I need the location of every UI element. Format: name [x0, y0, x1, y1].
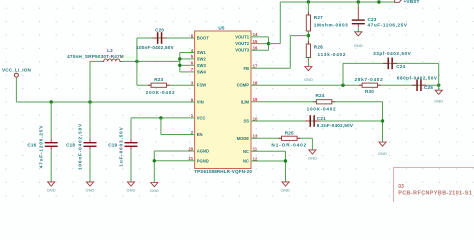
svg-text:100K-0402: 100K-0402 [307, 107, 337, 112]
svg-text:1uF-0603,50V: 1uF-0603,50V [119, 126, 124, 166]
svg-text:113k-0402: 113k-0402 [318, 52, 347, 57]
svg-text:+VBST: +VBST [404, 0, 420, 4]
svg-text:GND: GND [281, 188, 290, 193]
svg-text:COMP: COMP [237, 83, 250, 88]
svg-text:100nF-0402,50V: 100nF-0402,50V [136, 45, 174, 50]
svg-text:R25: R25 [285, 130, 294, 135]
svg-text:C19: C19 [108, 143, 117, 148]
svg-text:AGND: AGND [197, 149, 209, 154]
svg-text:R30: R30 [365, 89, 374, 94]
svg-text:GND: GND [354, 43, 363, 48]
svg-text:470nH_SRP5030T-R47M: 470nH_SRP5030T-R47M [67, 54, 124, 59]
svg-text:GND: GND [150, 188, 159, 193]
svg-text:C16: C16 [27, 143, 36, 148]
svg-text:GND: GND [378, 151, 387, 156]
svg-text:TPS61088RHLR-VQFN-20: TPS61088RHLR-VQFN-20 [194, 169, 252, 174]
svg-text:8.2nF-0402,50V: 8.2nF-0402,50V [317, 123, 354, 128]
svg-text:SW4: SW4 [197, 69, 207, 74]
svg-text:R24: R24 [315, 93, 324, 98]
svg-text:BOOT: BOOT [197, 36, 209, 41]
svg-text:03: 03 [398, 184, 404, 190]
svg-text:SS: SS [243, 119, 249, 124]
svg-text:1Mohm-0603: 1Mohm-0603 [314, 23, 349, 28]
svg-text:33pf-0402,50V: 33pf-0402,50V [373, 51, 411, 56]
svg-text:C25: C25 [424, 85, 433, 90]
svg-text:680pf-0402,50V: 680pf-0402,50V [397, 75, 438, 80]
svg-text:VOUT3: VOUT3 [235, 48, 250, 53]
svg-text:SW1: SW1 [197, 50, 207, 55]
svg-text:GND: GND [86, 188, 95, 193]
svg-text:SW2: SW2 [197, 56, 207, 61]
svg-text:100nF-0402,50V: 100nF-0402,50V [78, 123, 83, 170]
svg-text:NC: NC [243, 149, 249, 154]
svg-text:47uF-1206,25V: 47uF-1206,25V [39, 125, 44, 169]
svg-text:U5: U5 [218, 25, 225, 30]
svg-text:200K-0402: 200K-0402 [146, 90, 176, 95]
svg-text:L2: L2 [107, 48, 113, 53]
svg-text:PGND: PGND [197, 158, 209, 163]
svg-text:47uF-1206,25V: 47uF-1206,25V [368, 23, 408, 28]
svg-text:C21: C21 [317, 116, 326, 121]
svg-text:GND: GND [127, 188, 136, 193]
svg-text:FB: FB [243, 66, 249, 71]
svg-text:EN: EN [197, 132, 203, 137]
svg-text:R28: R28 [314, 45, 323, 50]
svg-text:R23: R23 [154, 77, 163, 82]
svg-text:PCB-RFCNPYBB-2101-S1: PCB-RFCNPYBB-2101-S1 [398, 191, 472, 197]
svg-text:ILIM: ILIM [241, 99, 250, 104]
svg-text:C24: C24 [396, 64, 405, 69]
svg-text:R27: R27 [314, 15, 323, 20]
svg-text:GND: GND [434, 99, 443, 104]
svg-text:C18: C18 [66, 143, 75, 148]
svg-text:C23: C23 [368, 17, 377, 22]
svg-text:FSW: FSW [197, 83, 206, 88]
svg-text:VCC_LI_ION: VCC_LI_ION [2, 67, 32, 72]
svg-text:N1-OR-0402: N1-OR-0402 [271, 142, 307, 147]
svg-text:NC: NC [243, 159, 249, 164]
svg-text:VOUT2: VOUT2 [235, 41, 250, 46]
svg-text:VOUT1: VOUT1 [235, 34, 250, 39]
svg-text:VCC: VCC [197, 115, 206, 120]
svg-text:GND: GND [304, 77, 313, 82]
svg-text:SW3: SW3 [197, 63, 207, 68]
svg-text:MODE: MODE [237, 136, 250, 141]
svg-text:VIN: VIN [197, 100, 204, 105]
svg-text:28k7-0402: 28k7-0402 [355, 77, 384, 82]
svg-text:C20: C20 [155, 28, 164, 33]
svg-text:GND: GND [47, 188, 56, 193]
svg-text:GND: GND [308, 155, 317, 160]
